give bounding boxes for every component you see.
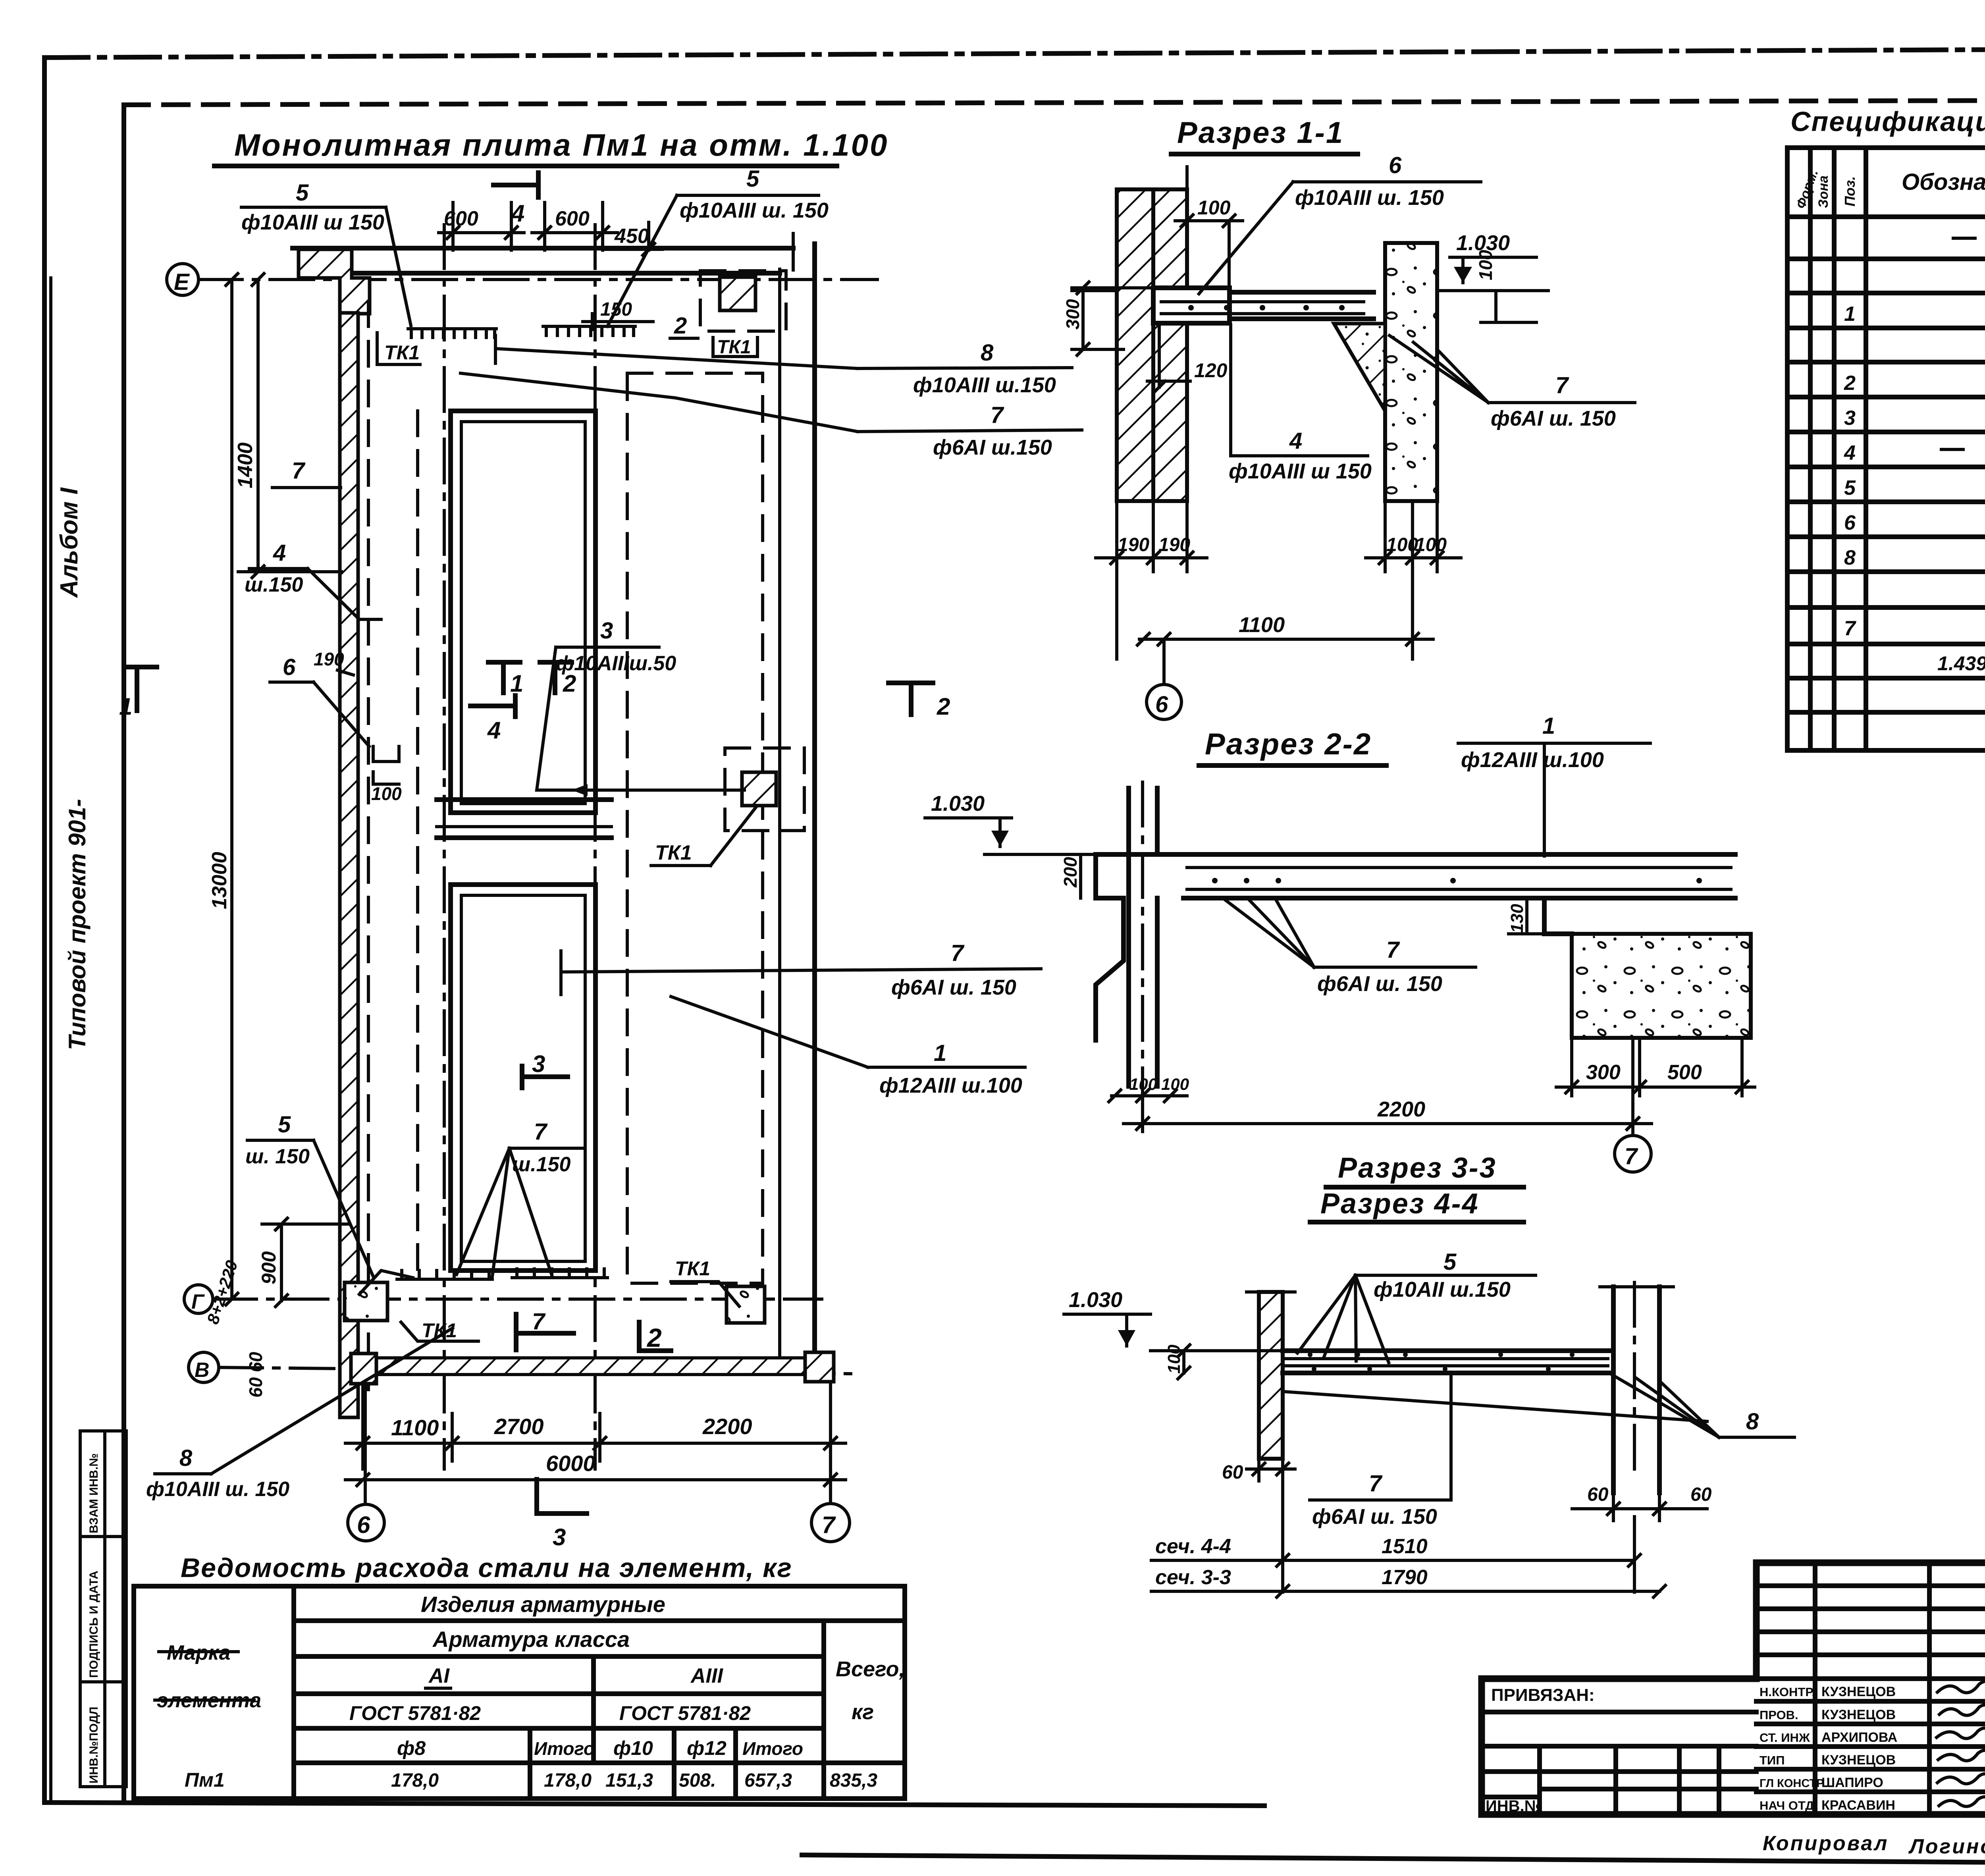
svg-text:Разрез 1-1: Разрез 1-1 bbox=[1177, 116, 1344, 150]
svg-text:АРХИПОВА: АРХИПОВА bbox=[1821, 1730, 1897, 1745]
svg-text:1: 1 bbox=[1844, 303, 1856, 326]
svg-text:Поз.: Поз. bbox=[1842, 176, 1858, 206]
bottom sheet edge line right part bbox=[802, 1855, 1985, 1866]
steel table outer box bbox=[134, 1586, 905, 1799]
svg-text:ф10АIII ш 150: ф10АIII ш 150 bbox=[241, 210, 384, 234]
svg-text:кг: кг bbox=[852, 1700, 874, 1724]
svg-text:1: 1 bbox=[1542, 713, 1555, 739]
svg-text:Обозначение: Обозначение bbox=[1902, 169, 1985, 195]
SECTION 2-2 bbox=[925, 713, 1755, 1172]
svg-text:ш.150: ш.150 bbox=[512, 1153, 571, 1176]
svg-text:Итого: Итого bbox=[742, 1738, 803, 1759]
svg-text:60 60: 60 60 bbox=[245, 1352, 266, 1398]
svg-text:5: 5 bbox=[278, 1112, 291, 1138]
svg-text:2700: 2700 bbox=[494, 1414, 544, 1439]
svg-text:Копировал: Копировал bbox=[1763, 1832, 1889, 1855]
svg-text:КРАСАВИН: КРАСАВИН bbox=[1821, 1798, 1895, 1813]
svg-text:300: 300 bbox=[1586, 1061, 1621, 1084]
svg-text:450: 450 bbox=[614, 225, 649, 248]
svg-text:5: 5 bbox=[1443, 1249, 1457, 1275]
axis G line bbox=[213, 1298, 822, 1301]
opening 1 outer rect bbox=[451, 411, 595, 813]
bottom dim chain 1100 2700 2200 bbox=[345, 1386, 846, 1469]
opening 2 outer rect bbox=[451, 885, 595, 1271]
svg-text:178,0: 178,0 bbox=[544, 1770, 592, 1791]
concrete haunch under slab bbox=[1334, 324, 1385, 411]
svg-text:300: 300 bbox=[1062, 299, 1083, 330]
svg-text:3: 3 bbox=[600, 618, 613, 644]
svg-text:ф10АIII ш.150: ф10АIII ш.150 bbox=[913, 373, 1056, 397]
svg-text:6: 6 bbox=[1844, 511, 1856, 534]
svg-text:190: 190 bbox=[1158, 534, 1190, 555]
svg-text:сеч. 4-4: сеч. 4-4 bbox=[1155, 1535, 1231, 1558]
svg-text:200: 200 bbox=[1060, 857, 1081, 888]
svg-text:ф6АI ш. 150: ф6АI ш. 150 bbox=[1317, 972, 1442, 996]
svg-text:1400: 1400 bbox=[234, 442, 257, 488]
svg-text:1.030: 1.030 bbox=[1069, 1288, 1122, 1312]
spec table outer box bbox=[1787, 148, 1985, 750]
svg-text:100: 100 bbox=[371, 783, 402, 804]
dim 1100 bbox=[1139, 638, 1433, 641]
bottom dim 190 190 bbox=[1096, 501, 1207, 659]
svg-text:60: 60 bbox=[1690, 1484, 1712, 1505]
LEFT MARGIN STAMPS bbox=[56, 487, 126, 1787]
svg-text:6: 6 bbox=[357, 1512, 370, 1538]
top dim chain 600 600 450 bbox=[439, 202, 662, 250]
svg-text:6: 6 bbox=[1155, 692, 1168, 717]
bottom dim 6000 bbox=[345, 1478, 846, 1481]
section marks T1 T2 inside plan bbox=[488, 662, 520, 693]
opening 1 inner rect bbox=[461, 422, 585, 804]
svg-text:ф6АI ш.150: ф6АI ш.150 bbox=[933, 436, 1052, 459]
inner frame left line bbox=[121, 105, 126, 1803]
svg-text:Монолитная плита Пм1 на отм. 1: Монолитная плита Пм1 на отм. 1.100 bbox=[234, 127, 888, 162]
svg-text:ф10АIII ш. 150: ф10АIII ш. 150 bbox=[680, 199, 829, 222]
axis V circle bbox=[189, 1352, 219, 1382]
bottom rebar comb 2 bbox=[512, 1269, 607, 1278]
signatures squiggles bbox=[1937, 1681, 1985, 1806]
bottom left hatched block bbox=[345, 1282, 387, 1321]
svg-text:Зона: Зона bbox=[1816, 175, 1831, 208]
svg-text:60: 60 bbox=[1222, 1462, 1243, 1483]
dim 900 vertical bbox=[280, 1224, 283, 1301]
svg-text:ф12: ф12 bbox=[687, 1737, 727, 1759]
svg-text:835,3: 835,3 bbox=[830, 1770, 877, 1791]
svg-text:600: 600 bbox=[444, 207, 478, 230]
svg-text:1100: 1100 bbox=[391, 1415, 439, 1440]
svg-text:ГОСТ 5781·82: ГОСТ 5781·82 bbox=[349, 1702, 481, 1724]
svg-text:Разрез 2-2: Разрез 2-2 bbox=[1205, 727, 1372, 761]
svg-text:1: 1 bbox=[934, 1040, 946, 1066]
svg-text:7: 7 bbox=[951, 940, 965, 966]
svg-text:Типовой проект 901-: Типовой проект 901- bbox=[64, 799, 91, 1050]
section line 2 (vertical dash-dot) bbox=[594, 225, 597, 1469]
svg-text:100: 100 bbox=[1475, 250, 1496, 280]
svg-text:ПРОВ.: ПРОВ. bbox=[1760, 1708, 1798, 1722]
svg-text:1.439-2: 1.439-2 bbox=[1937, 652, 1985, 675]
axis V line bbox=[219, 1367, 854, 1374]
svg-text:5: 5 bbox=[296, 180, 309, 206]
vsego column bbox=[821, 1621, 826, 1799]
svg-text:130: 130 bbox=[1507, 904, 1527, 933]
svg-text:13000: 13000 bbox=[208, 852, 231, 909]
section mark 4 top bbox=[493, 173, 538, 197]
left column bbox=[1126, 788, 1131, 1086]
dim 1400 vertical bbox=[256, 280, 260, 572]
long diagonal line bbox=[1284, 1392, 1707, 1421]
svg-text:1: 1 bbox=[119, 693, 132, 720]
svg-text:7: 7 bbox=[1625, 1143, 1638, 1169]
dim 13000 vertical bbox=[230, 280, 233, 1299]
right concrete wall bbox=[1385, 243, 1437, 501]
top plate edge lines bbox=[293, 246, 793, 251]
axis G circle bbox=[184, 1285, 213, 1313]
svg-text:ИНВ.№ПОДЛ: ИНВ.№ПОДЛ bbox=[87, 1706, 100, 1783]
svg-text:4: 4 bbox=[487, 717, 501, 744]
svg-text:4: 4 bbox=[1844, 442, 1856, 465]
section mark 3 inside plan bbox=[522, 1066, 568, 1088]
outer left border line bbox=[42, 58, 47, 1803]
svg-text:508.: 508. bbox=[679, 1770, 716, 1791]
svg-text:3: 3 bbox=[532, 1051, 545, 1077]
svg-text:ТК1: ТК1 bbox=[717, 337, 751, 358]
left slab support step bbox=[1096, 854, 1124, 1040]
svg-text:1510: 1510 bbox=[1382, 1535, 1428, 1558]
wall face dashed line bbox=[367, 302, 370, 1390]
TITLE BLOCK bbox=[1482, 1563, 1985, 1815]
middle TK1 dashed box bbox=[725, 748, 804, 831]
marka column bbox=[291, 1586, 296, 1799]
slab with embedded end bbox=[1153, 288, 1230, 323]
svg-text:8: 8 bbox=[981, 340, 994, 366]
svg-text:ф10АIIIш.50: ф10АIIIш.50 bbox=[556, 652, 676, 675]
top rebar comb 1 bbox=[408, 329, 496, 337]
axis 7 circle bbox=[811, 1504, 850, 1542]
bottom dim 100 100 bbox=[1366, 501, 1461, 659]
svg-text:АI: АI bbox=[428, 1664, 450, 1687]
svg-text:2: 2 bbox=[1844, 372, 1856, 395]
bottom rebar comb 1 bbox=[397, 1271, 492, 1279]
svg-text:7: 7 bbox=[822, 1512, 836, 1538]
svg-text:2: 2 bbox=[646, 1323, 662, 1352]
svg-text:ф12АIII ш.100: ф12АIII ш.100 bbox=[1461, 748, 1604, 772]
svg-text:НАЧ ОТД: НАЧ ОТД bbox=[1760, 1799, 1814, 1812]
svg-text:ПОДПИСЬ И ДАТА: ПОДПИСЬ И ДАТА bbox=[87, 1571, 100, 1678]
section mark 4 inside plan bbox=[470, 696, 515, 717]
side stamp strip bbox=[80, 1431, 126, 1787]
bottom frame line left part bbox=[44, 1803, 1264, 1806]
svg-text:4: 4 bbox=[273, 540, 286, 566]
section mark 2 bottom bbox=[639, 1322, 671, 1351]
svg-text:ТК1: ТК1 bbox=[675, 1257, 710, 1280]
svg-text:ф6АI ш. 150: ф6АI ш. 150 bbox=[891, 976, 1016, 999]
middle TK1 hatched square bbox=[742, 772, 776, 806]
svg-text:5: 5 bbox=[1844, 476, 1856, 499]
PLAN VIEW: Monolithic slab Pm1 bbox=[119, 127, 1082, 1550]
svg-text:4: 4 bbox=[511, 200, 524, 227]
svg-text:Разрез 3-3: Разрез 3-3 bbox=[1338, 1152, 1497, 1184]
axis E circle bbox=[167, 264, 198, 295]
svg-text:Ведомость расхода стали на эле: Ведомость расхода стали на элемент, кг bbox=[181, 1553, 792, 1583]
dimension tick slashes bbox=[226, 215, 1748, 1597]
svg-text:2: 2 bbox=[674, 313, 687, 339]
svg-text:Н.КОНТР.: Н.КОНТР. bbox=[1760, 1685, 1815, 1699]
svg-text:Изделия арматурные: Изделия арматурные bbox=[421, 1592, 665, 1617]
svg-text:2: 2 bbox=[937, 693, 950, 720]
leader fan from label 5 bbox=[1297, 1275, 1355, 1353]
axis 6 circle bbox=[348, 1504, 384, 1541]
svg-text:1100: 1100 bbox=[1239, 613, 1285, 637]
right column bbox=[1611, 1287, 1616, 1493]
svg-text:1790: 1790 bbox=[1382, 1566, 1428, 1589]
svg-text:1.030: 1.030 bbox=[931, 792, 985, 816]
svg-text:ГОСТ 5781·82: ГОСТ 5781·82 bbox=[619, 1702, 751, 1724]
STEEL CONSUMPTION TABLE bbox=[134, 1553, 905, 1799]
svg-text:8: 8 bbox=[1746, 1409, 1759, 1434]
svg-text:Пм1: Пм1 bbox=[185, 1769, 225, 1791]
bottom right hatched block TK1 bbox=[727, 1286, 765, 1323]
signature grid upper rows bbox=[1756, 1586, 1985, 1679]
svg-text:500: 500 bbox=[1667, 1061, 1702, 1084]
svg-text:ш. 150: ш. 150 bbox=[245, 1145, 310, 1168]
section line 1 (vertical dash-dot) bbox=[443, 225, 446, 1469]
svg-text:ПРИВЯЗАН:: ПРИВЯЗАН: bbox=[1491, 1685, 1595, 1705]
svg-text:6: 6 bbox=[1389, 152, 1402, 178]
svg-text:7: 7 bbox=[292, 458, 306, 484]
cross wall lines between openings bbox=[437, 797, 611, 802]
left masonry wall inner layer bbox=[1153, 189, 1187, 288]
bottom slab hatched strip bbox=[369, 1358, 816, 1375]
svg-text:600: 600 bbox=[555, 207, 590, 230]
slab rebar lines bbox=[1161, 300, 1364, 303]
svg-text:Спецификация к монолитной плит: Спецификация к монолитной плите Пм1. bbox=[1790, 106, 1985, 137]
svg-text:ТИП: ТИП bbox=[1760, 1753, 1785, 1767]
BOTTOM NOTES bbox=[1763, 1832, 1985, 1858]
axis 6 extension bbox=[364, 1375, 367, 1504]
top-right TK1 dashed box bbox=[700, 271, 786, 331]
left masonry wall outer layer bbox=[1117, 189, 1153, 501]
svg-text:60: 60 bbox=[1587, 1484, 1609, 1505]
svg-text:7: 7 bbox=[534, 1119, 548, 1145]
svg-text:4: 4 bbox=[1289, 428, 1302, 454]
top-right TK1 label box bbox=[713, 337, 757, 357]
signature grid name rows bbox=[1756, 1701, 1985, 1792]
axis circle 7 bbox=[1615, 1136, 1651, 1172]
svg-text:7: 7 bbox=[991, 402, 1004, 428]
slab level extension line bbox=[985, 853, 1100, 856]
svg-text:100: 100 bbox=[1197, 197, 1231, 219]
svg-text:2200: 2200 bbox=[702, 1414, 752, 1439]
svg-text:ф6АI ш. 150: ф6АI ш. 150 bbox=[1491, 407, 1616, 430]
svg-text:АIII: АIII bbox=[690, 1664, 723, 1687]
svg-text:Итого: Итого bbox=[534, 1738, 595, 1759]
top-left corner hatched wall block bbox=[299, 249, 370, 314]
svg-text:ф10АIII ш. 150: ф10АIII ш. 150 bbox=[1295, 186, 1444, 210]
dim 100 small box bbox=[373, 746, 399, 762]
svg-text:ф12АIII ш.100: ф12АIII ш.100 bbox=[879, 1074, 1022, 1097]
svg-text:900: 900 bbox=[258, 1251, 280, 1284]
svg-text:В: В bbox=[195, 1359, 210, 1382]
svg-text:178,0: 178,0 bbox=[391, 1770, 439, 1791]
dim 300 500 below footing bbox=[1556, 1038, 1755, 1096]
svg-text:Разрез 4-4: Разрез 4-4 bbox=[1320, 1188, 1479, 1220]
title block outer edges bbox=[1756, 1560, 1985, 1566]
svg-text:3: 3 bbox=[1844, 407, 1856, 430]
section mark 1 left margin bbox=[126, 667, 157, 711]
spec vertical lines bbox=[1810, 148, 1985, 750]
inner frame top dashed line bbox=[124, 99, 1985, 105]
svg-text:3: 3 bbox=[553, 1524, 566, 1550]
svg-text:ф6АI ш. 150: ф6АI ш. 150 bbox=[1312, 1505, 1437, 1529]
svg-text:КУЗНЕЦОВ: КУЗНЕЦОВ bbox=[1821, 1684, 1896, 1699]
svg-text:КУЗНЕЦОВ: КУЗНЕЦОВ bbox=[1821, 1707, 1896, 1722]
interior dashed line bbox=[416, 411, 419, 1282]
axis E line bbox=[198, 278, 877, 281]
opening 2 inner rect bbox=[461, 895, 585, 1261]
svg-text:Г: Г bbox=[191, 1290, 205, 1313]
svg-text:сеч. 3-3: сеч. 3-3 bbox=[1155, 1566, 1231, 1589]
svg-text:ТК1: ТК1 bbox=[384, 341, 420, 364]
svg-text:190: 190 bbox=[314, 649, 344, 669]
svg-text:8: 8 bbox=[1844, 546, 1856, 569]
svg-text:КУЗНЕЦОВ: КУЗНЕЦОВ bbox=[1821, 1753, 1896, 1768]
svg-text:7: 7 bbox=[1555, 372, 1569, 398]
svg-text:2200: 2200 bbox=[1377, 1097, 1425, 1121]
spec row Pm1 bbox=[1953, 237, 1975, 240]
svg-text:7: 7 bbox=[1386, 937, 1400, 963]
signature grid columns bbox=[1815, 1563, 1985, 1814]
SECTION 1-1 bbox=[888, 116, 1635, 720]
svg-text:120: 120 bbox=[1194, 359, 1228, 382]
bottom small block right bbox=[805, 1352, 834, 1382]
svg-text:ГЛ КОНСТР: ГЛ КОНСТР bbox=[1760, 1777, 1824, 1790]
axis circle 6 bbox=[1147, 684, 1181, 719]
axis 7 extension bbox=[829, 1375, 832, 1504]
svg-text:Альбом I: Альбом I bbox=[56, 487, 83, 598]
section mark 3 bottom bbox=[537, 1479, 587, 1514]
svg-text:7: 7 bbox=[1369, 1471, 1383, 1496]
svg-text:7: 7 bbox=[532, 1309, 546, 1334]
step from slab to footing bbox=[1544, 898, 1572, 934]
dim 2200 bbox=[1141, 1092, 1144, 1132]
svg-text:ТК1: ТК1 bbox=[655, 841, 692, 864]
svg-text:6000: 6000 bbox=[546, 1451, 595, 1476]
plan title underline bbox=[214, 164, 837, 168]
svg-text:5: 5 bbox=[746, 166, 759, 192]
top rebar comb 2 bbox=[543, 326, 635, 335]
svg-text:8: 8 bbox=[179, 1445, 193, 1471]
spec row 4 bbox=[1941, 448, 1963, 451]
bottom small block left bbox=[351, 1353, 376, 1384]
svg-text:7: 7 bbox=[1844, 617, 1856, 640]
plan right edge lines bbox=[812, 244, 817, 1372]
svg-text:Логинов: Логинов bbox=[1908, 1835, 1985, 1858]
slab band bbox=[1283, 1348, 1611, 1353]
svg-text:Всего,: Всего, bbox=[836, 1657, 905, 1681]
left wall hatched strip bbox=[340, 313, 358, 1417]
svg-text:Е: Е bbox=[174, 269, 190, 295]
middle TK1 arrow line bbox=[572, 789, 744, 792]
svg-text:6: 6 bbox=[283, 654, 296, 680]
right concrete footing bbox=[1572, 934, 1751, 1038]
section mark T2 left bbox=[888, 683, 933, 715]
top-right TK1 hatched square bbox=[720, 277, 755, 310]
spec horizontal lines bbox=[1787, 217, 1985, 712]
svg-text:100: 100 bbox=[1164, 1344, 1184, 1374]
svg-text:1: 1 bbox=[510, 670, 523, 697]
svg-text:657,3: 657,3 bbox=[744, 1770, 792, 1791]
dimension extension line at slab left bbox=[1072, 289, 1117, 292]
svg-text:Арматура класса: Арматура класса bbox=[432, 1627, 630, 1652]
svg-text:ф10АIII ш 150: ф10АIII ш 150 bbox=[1229, 459, 1372, 483]
svg-text:151,3: 151,3 bbox=[605, 1770, 653, 1791]
top border dash-dot line bbox=[44, 48, 1985, 58]
big dashed rectangle bbox=[627, 373, 763, 1283]
svg-text:СТ. ИНЖ: СТ. ИНЖ bbox=[1760, 1731, 1810, 1745]
svg-text:ф10АIII ш. 150: ф10АIII ш. 150 bbox=[146, 1478, 289, 1501]
svg-text:ф10АII ш.150: ф10АII ш.150 bbox=[1374, 1278, 1511, 1301]
svg-text:ф8: ф8 bbox=[397, 1737, 426, 1759]
left wall hatched bbox=[1259, 1292, 1283, 1459]
svg-text:ф10: ф10 bbox=[613, 1737, 653, 1759]
slab long bbox=[1096, 852, 1735, 857]
svg-text:ШАПИРО: ШАПИРО bbox=[1821, 1775, 1883, 1790]
SPECIFICATION TABLE bbox=[1787, 106, 1985, 750]
svg-text:ВЗАМ ИНВ.№: ВЗАМ ИНВ.№ bbox=[87, 1453, 100, 1533]
SECTION 3-3 4-4 bbox=[1064, 1152, 1794, 1592]
svg-text:ИНВ.№: ИНВ.№ bbox=[1486, 1797, 1542, 1815]
position mark 7 bottom middle bbox=[516, 1314, 574, 1350]
